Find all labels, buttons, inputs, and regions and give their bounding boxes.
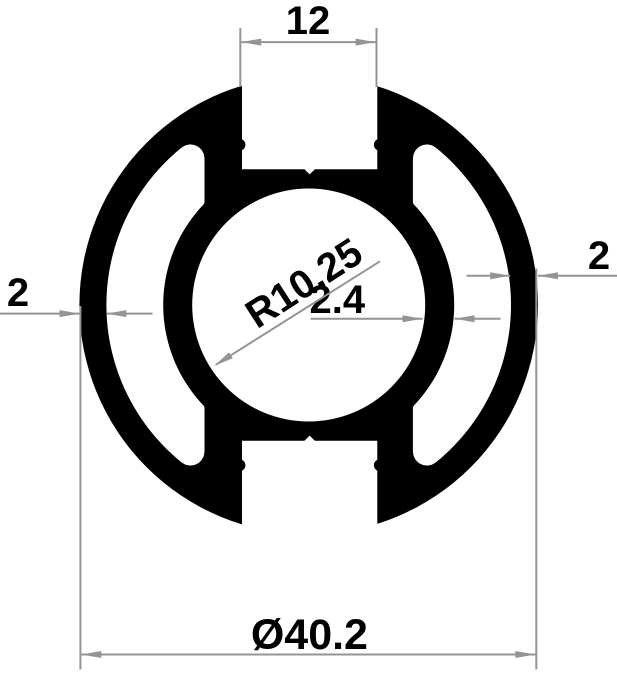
bottom slot <box>242 436 377 560</box>
svg-text:2: 2 <box>7 271 29 315</box>
dim D40.2: extension lines <box>79 306 81 670</box>
svg-text:2: 2 <box>588 234 610 278</box>
dim D40.2: dimension line <box>81 654 535 656</box>
left crescent channel <box>106 144 204 465</box>
dim 2 left: dimension line <box>0 313 80 315</box>
central bore R10.25 <box>192 189 425 422</box>
nub top-right <box>374 139 386 151</box>
dim 2.4: dimension line <box>311 318 423 320</box>
nub bottom-right <box>374 459 386 471</box>
nub top-left <box>233 139 245 151</box>
dim R10.25: leader line <box>216 261 380 364</box>
dim 12: dimension line <box>241 41 375 43</box>
nub bottom-left <box>233 459 245 471</box>
top slot 12 wide <box>242 50 377 174</box>
profile outer disc <box>79 76 538 535</box>
svg-text:Ø40.2: Ø40.2 <box>251 611 368 659</box>
dim 2 right: dimension line <box>467 275 511 277</box>
right crescent channel <box>413 144 511 465</box>
dim 12: extension lines <box>239 28 241 87</box>
svg-text:12: 12 <box>286 0 331 43</box>
